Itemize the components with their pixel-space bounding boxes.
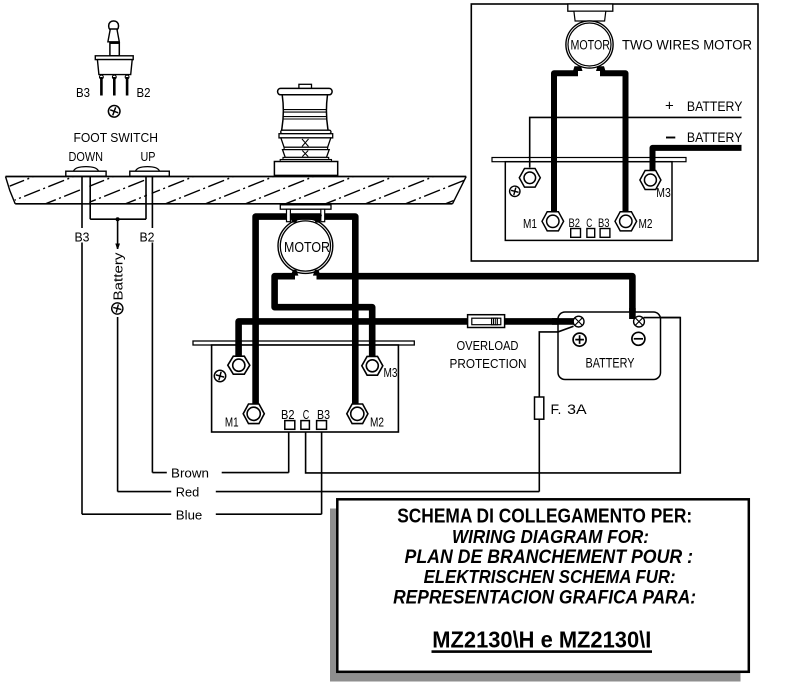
- svg-text:B3: B3: [76, 86, 90, 100]
- svg-text:+: +: [665, 98, 674, 115]
- svg-text:DOWN: DOWN: [69, 150, 104, 164]
- svg-text:3A: 3A: [567, 401, 587, 417]
- svg-text:M2: M2: [639, 217, 653, 231]
- svg-text:Blue: Blue: [176, 509, 203, 523]
- svg-text:WIRING DIAGRAM FOR:: WIRING DIAGRAM FOR:: [452, 527, 649, 547]
- svg-text:B2: B2: [569, 216, 581, 230]
- svg-text:OVERLOAD: OVERLOAD: [457, 338, 519, 353]
- svg-text:BATTERY: BATTERY: [586, 356, 635, 371]
- svg-text:B3: B3: [598, 216, 610, 230]
- svg-text:M3: M3: [656, 186, 671, 200]
- svg-text:FOOT SWITCH: FOOT SWITCH: [74, 131, 159, 145]
- svg-text:M2: M2: [370, 415, 384, 430]
- svg-text:B3: B3: [75, 231, 90, 245]
- svg-text:M3: M3: [384, 365, 398, 380]
- svg-text:MOTOR: MOTOR: [571, 37, 611, 52]
- svg-text:B3: B3: [317, 407, 330, 422]
- svg-text:M1: M1: [523, 217, 537, 231]
- svg-text:PROTECTION: PROTECTION: [450, 356, 527, 371]
- svg-text:B2: B2: [281, 407, 295, 422]
- svg-text:TWO WIRES MOTOR: TWO WIRES MOTOR: [622, 38, 752, 53]
- svg-text:F.: F.: [551, 401, 562, 417]
- svg-text:C: C: [586, 216, 592, 230]
- svg-text:BATTERY: BATTERY: [687, 130, 743, 145]
- svg-text:MOTOR: MOTOR: [284, 239, 330, 256]
- svg-text:MZ2130\H e MZ2130\I: MZ2130\H e MZ2130\I: [432, 627, 651, 653]
- svg-text:SCHEMA DI COLLEGAMENTO PER:: SCHEMA DI COLLEGAMENTO PER:: [397, 506, 692, 528]
- svg-text:M1: M1: [225, 415, 239, 430]
- svg-text:ELEKTRISCHEN SCHEMA FUR:: ELEKTRISCHEN SCHEMA FUR:: [424, 567, 676, 587]
- svg-text:B2: B2: [137, 86, 151, 100]
- svg-text:BATTERY: BATTERY: [687, 99, 743, 114]
- svg-text:UP: UP: [141, 150, 156, 164]
- svg-text:C: C: [303, 407, 310, 422]
- svg-text:Battery: Battery: [111, 252, 125, 301]
- svg-text:PLAN DE BRANCHEMENT POUR :: PLAN DE BRANCHEMENT POUR :: [405, 547, 694, 568]
- svg-text:Brown: Brown: [171, 467, 209, 481]
- svg-text:B2: B2: [140, 231, 155, 245]
- svg-text:REPRESENTACION GRAFICA PARA:: REPRESENTACION GRAFICA PARA:: [393, 588, 696, 609]
- svg-text:Red: Red: [176, 486, 200, 500]
